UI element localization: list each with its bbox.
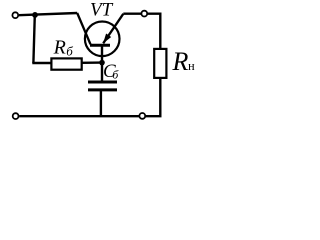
wire: Cб bottom plate to bottom rail	[100, 90, 102, 116]
terminal: bottom-right output (inline)	[139, 113, 145, 119]
svg-text:б: б	[66, 44, 73, 59]
terminal: top-right output (inline)	[141, 11, 147, 17]
wire: base lead down to capacitor	[101, 45, 103, 81]
resistor Rб body	[51, 58, 81, 69]
capacitor Cб bottom plate	[88, 88, 117, 91]
svg-text:R: R	[172, 47, 189, 76]
svg-text:б: б	[112, 68, 119, 82]
svg-text:R: R	[53, 36, 66, 58]
wire: Rн bottom lead down to bottom rail	[159, 78, 161, 116]
capacitor Cб top plate	[88, 81, 117, 84]
wire: top-left terminal to collector corner	[19, 13, 77, 15]
wire: bias rail to Rb left lead	[32, 62, 50, 64]
transistor VT envelope	[85, 22, 120, 57]
transistor VT base bar	[90, 44, 110, 47]
transistor VT emitter arrow (PNP)	[103, 34, 111, 44]
svg-text:н: н	[188, 59, 195, 73]
wire: bias vertical drop	[33, 15, 34, 63]
terminal: bottom-left input	[13, 113, 19, 119]
node: base-bias tap junction	[32, 12, 38, 18]
transistor VT emitter lead	[103, 14, 123, 44]
resistor Rн body	[154, 49, 166, 78]
wire: emitter to top-right corner and down right rail	[123, 14, 160, 49]
wire: bottom rail	[19, 115, 161, 117]
node: base junction	[99, 60, 105, 66]
transistor VT collector lead	[77, 13, 90, 44]
terminal: top-left input	[12, 12, 18, 18]
wire: Rб right lead to base node	[82, 61, 102, 64]
svg-text:VT: VT	[90, 0, 114, 21]
